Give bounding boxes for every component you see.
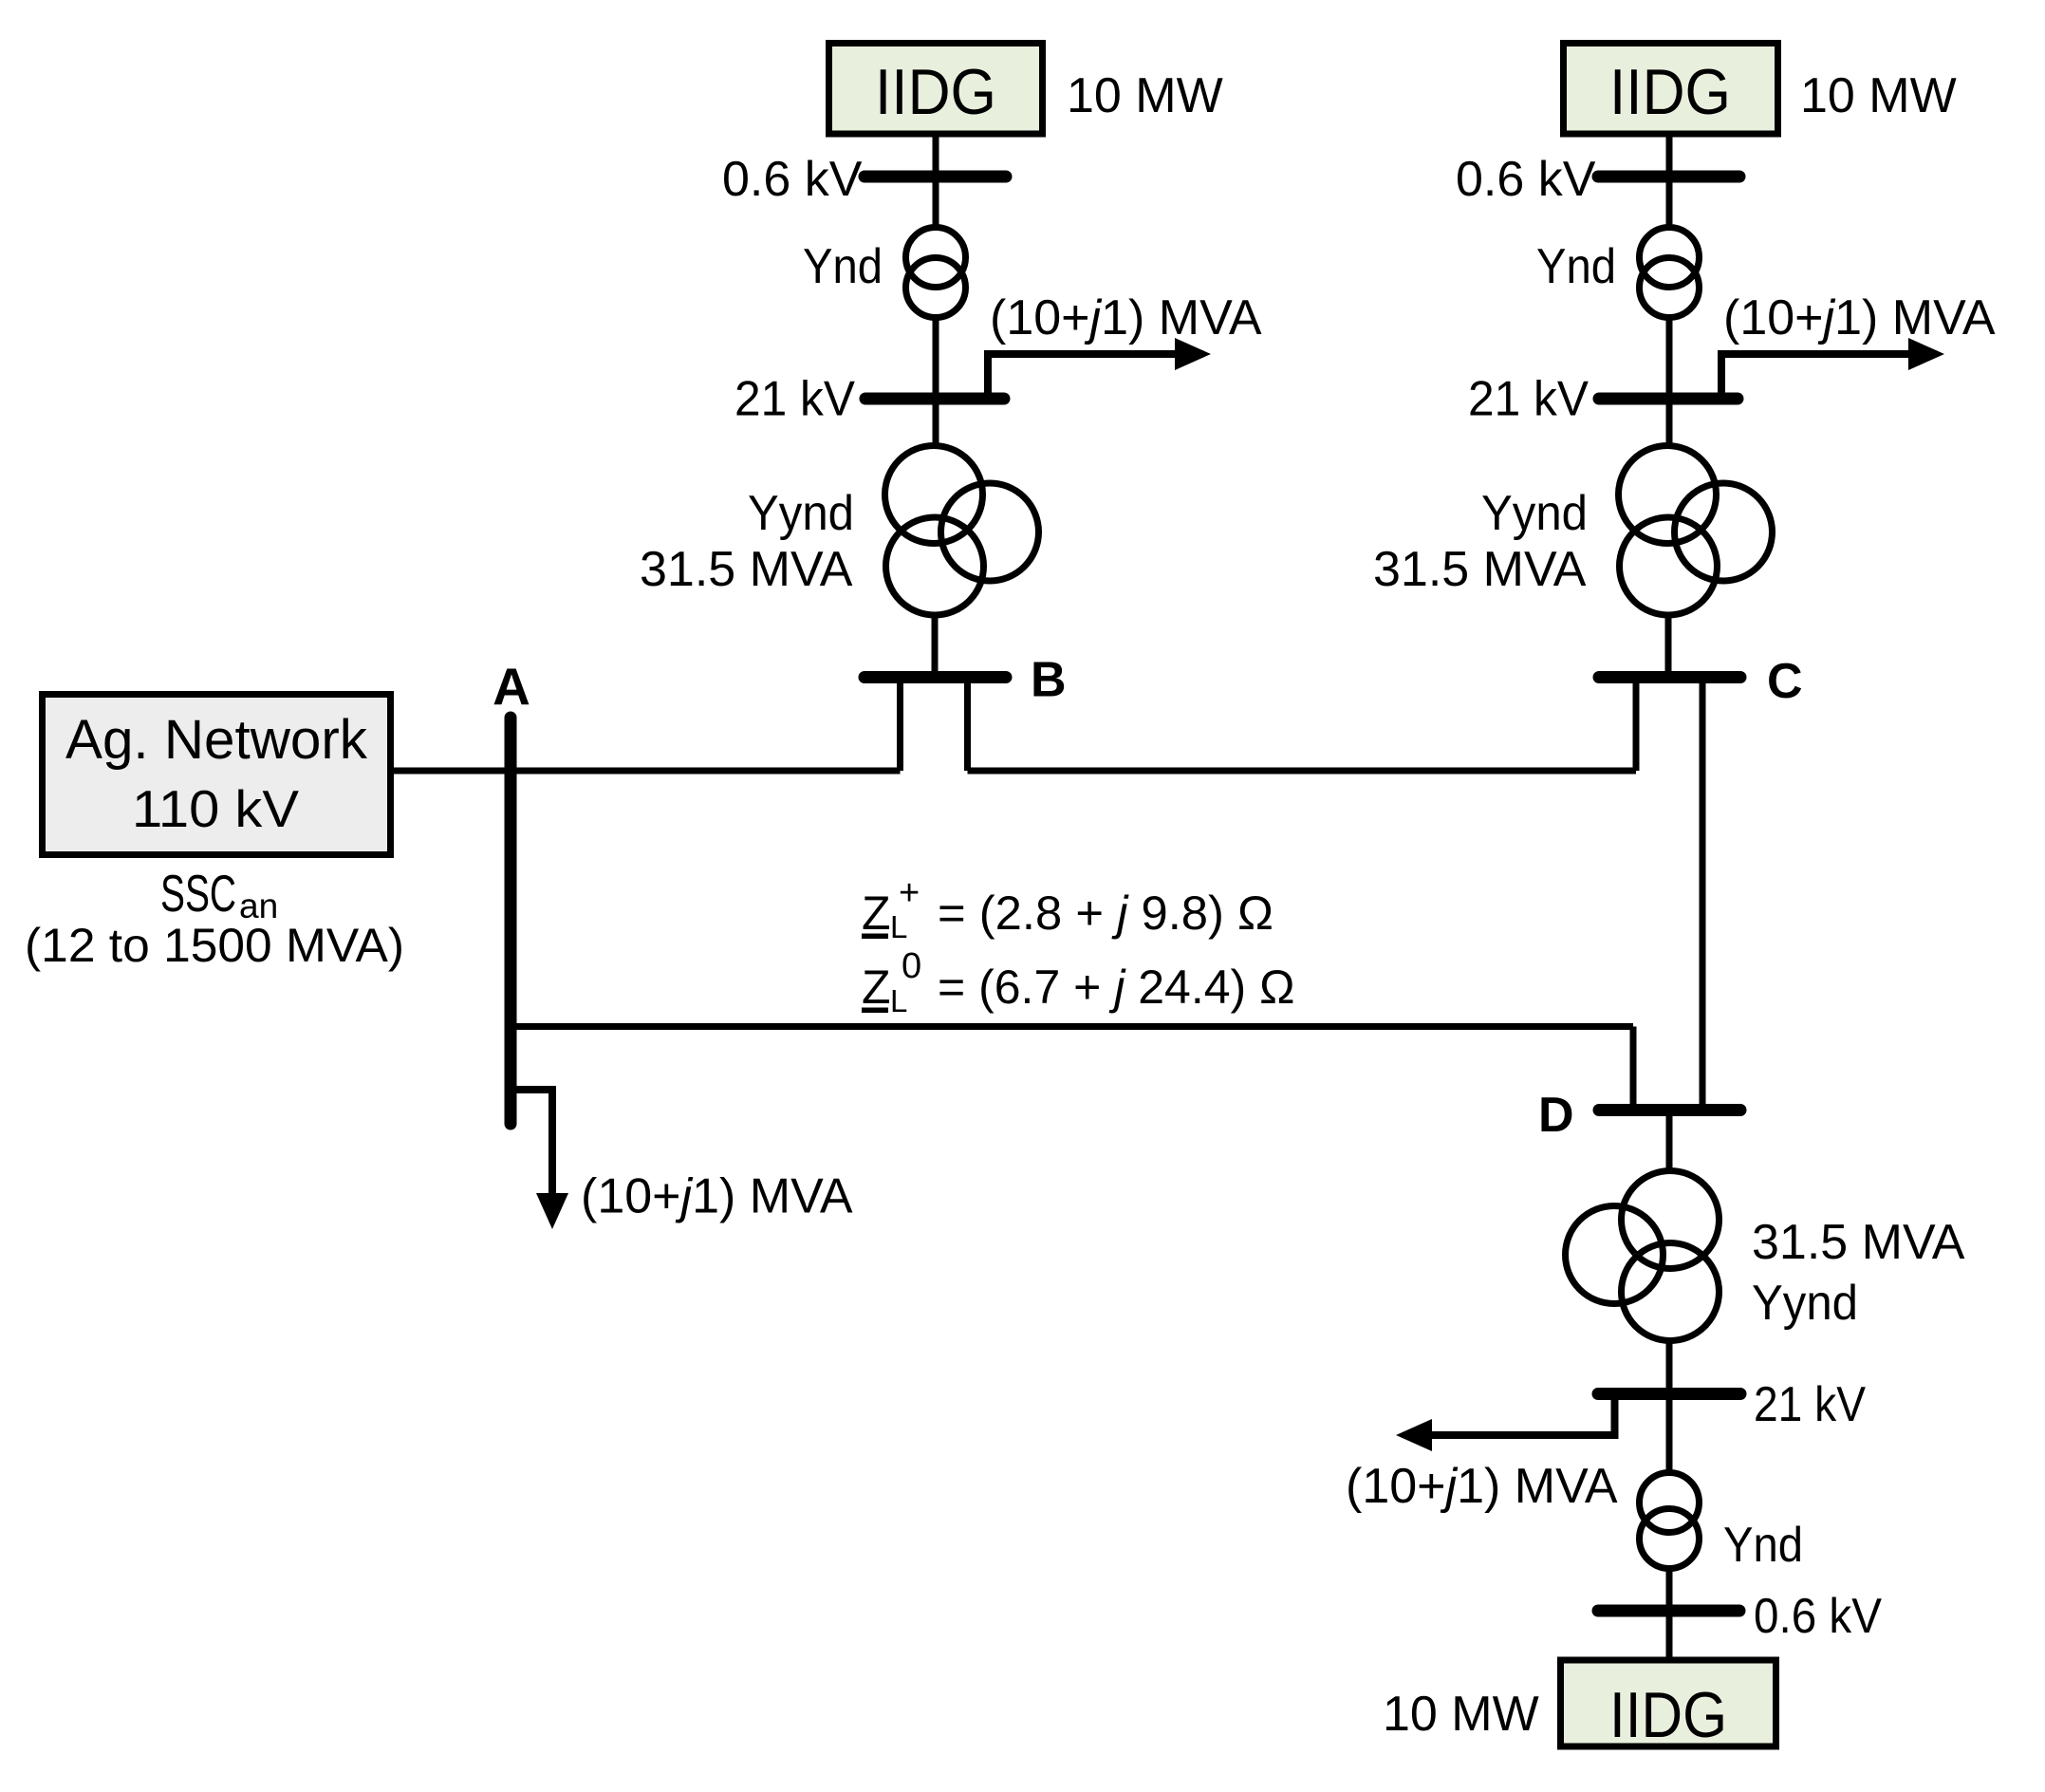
- svg-text:0.6 kV: 0.6 kV: [722, 152, 863, 207]
- wire T6 to 0.6 kV bus (bottom branch): [1666, 1568, 1673, 1611]
- wire T4 to bus C: [1665, 615, 1672, 677]
- wire 0.6 kV bus to IIDG box 3: [1666, 1611, 1673, 1660]
- load arrow at bus A: [511, 1090, 568, 1229]
- svg-text:B: B: [1031, 653, 1067, 708]
- load arrow at 21 kV bus (branch 2): [1721, 338, 1944, 393]
- bus C: [1599, 671, 1740, 683]
- svg-text:(12 to 1500 MVA): (12 to 1500 MVA): [25, 919, 404, 972]
- svg-text:Ynd: Ynd: [803, 239, 883, 294]
- svg-text:Ynd: Ynd: [1723, 1518, 1803, 1573]
- IIDG source box 1: [829, 44, 1043, 135]
- bus 21 kV (branch 1): [865, 393, 1004, 405]
- wire bus D to transformer T5: [1666, 1111, 1673, 1174]
- label line impedance zero sequence: [862, 946, 1294, 1018]
- transformer T2 Yynd 31.5 MVA (three windings, branch 1): [885, 446, 1039, 616]
- svg-text:Yynd: Yynd: [748, 486, 854, 541]
- svg-text:10 MW: 10 MW: [1383, 1687, 1539, 1742]
- svg-text:= (2.8 + j 9.8) Ω: = (2.8 + j 9.8) Ω: [938, 887, 1273, 940]
- svg-text:Ag. Network: Ag. Network: [65, 709, 368, 771]
- svg-text:(10+j1) MVA: (10+j1) MVA: [1346, 1459, 1618, 1514]
- svg-text:31.5 MVA: 31.5 MVA: [1752, 1215, 1965, 1270]
- svg-text:D: D: [1538, 1088, 1574, 1143]
- wire T1 to 21 kV bus (branch 1): [933, 317, 939, 399]
- transformer T5 Yynd 31.5 MVA (three windings, bottom branch): [1566, 1171, 1720, 1341]
- svg-text:Ynd: Ynd: [1536, 239, 1616, 294]
- svg-text:SSC: SSC: [160, 864, 236, 923]
- svg-text:21 kV: 21 kV: [734, 372, 855, 427]
- bus 0.6 kV (bottom branch): [1598, 1605, 1739, 1617]
- wire 21 kV bus to transformer T2 (branch 1): [933, 399, 939, 446]
- svg-text:21 kV: 21 kV: [1754, 1377, 1866, 1432]
- bus 21 kV (bottom branch): [1598, 1388, 1740, 1400]
- wire bus C left stub down to line B-C: [1633, 681, 1640, 771]
- transformer T6 Ynd (two windings, bottom branch): [1640, 1473, 1700, 1569]
- svg-text:0.6 kV: 0.6 kV: [1456, 152, 1596, 207]
- Ag. Network 110 kV box: [43, 695, 391, 855]
- label line impedance positive sequence: [862, 873, 1273, 944]
- svg-text:= (6.7 + j 24.4) Ω: = (6.7 + j 24.4) Ω: [938, 961, 1294, 1014]
- svg-text:10 MW: 10 MW: [1800, 68, 1957, 123]
- svg-text:L: L: [890, 909, 907, 944]
- svg-text:(10+j1) MVA: (10+j1) MVA: [1723, 290, 1996, 345]
- wire line B-C: [968, 768, 1637, 775]
- svg-text:110 kV: 110 kV: [132, 779, 299, 838]
- svg-text:Yynd: Yynd: [1481, 486, 1588, 541]
- wire 21 kV bus to transformer T6 (bottom branch): [1666, 1393, 1673, 1473]
- IIDG source box 3: [1561, 1660, 1776, 1751]
- bus 0.6 kV (branch 1): [864, 171, 1006, 183]
- svg-text:21 kV: 21 kV: [1468, 372, 1589, 427]
- transformer T3 Ynd (two windings, branch 2): [1640, 228, 1700, 318]
- bus D: [1599, 1104, 1740, 1116]
- svg-text:31.5 MVA: 31.5 MVA: [640, 542, 853, 597]
- wire bus B left stub down to line A-B: [897, 681, 903, 771]
- svg-text:C: C: [1767, 654, 1803, 709]
- svg-text:L: L: [890, 983, 907, 1018]
- wire 0.6 kV bus to transformer T3: [1666, 177, 1673, 230]
- load arrow at 21 kV bus (bottom branch): [1396, 1400, 1615, 1451]
- wire bus C right stub down to bus D (line C-D): [1700, 681, 1706, 1107]
- svg-text:A: A: [493, 657, 530, 716]
- svg-text:Z: Z: [862, 887, 891, 940]
- svg-text:0: 0: [902, 946, 921, 986]
- svg-text:(10+j1) MVA: (10+j1) MVA: [990, 290, 1262, 345]
- svg-text:IIDG: IIDG: [1609, 1679, 1727, 1751]
- wire IIDG1 to 0.6 kV bus: [933, 134, 939, 177]
- svg-text:10 MW: 10 MW: [1067, 68, 1223, 123]
- svg-text:Yynd: Yynd: [1752, 1276, 1858, 1331]
- wire IIDG2 to 0.6 kV bus: [1666, 134, 1673, 177]
- transformer T4 Yynd 31.5 MVA (three windings, branch 2): [1619, 446, 1773, 616]
- wire bus B right stub down to line B-C: [964, 681, 971, 771]
- svg-text:IIDG: IIDG: [1609, 56, 1731, 128]
- wire T3 to 21 kV bus (branch 2): [1666, 317, 1673, 399]
- svg-text:IIDG: IIDG: [875, 56, 996, 128]
- svg-text:+: +: [899, 873, 920, 913]
- wire line A-D (horizontal): [511, 1023, 1633, 1030]
- bus 21 kV (branch 2): [1599, 393, 1738, 405]
- svg-text:0.6 kV: 0.6 kV: [1754, 1589, 1882, 1644]
- bus 0.6 kV (branch 2): [1598, 171, 1739, 183]
- wire T5 to 21 kV bus (bottom branch): [1666, 1340, 1673, 1393]
- svg-text:31.5 MVA: 31.5 MVA: [1373, 542, 1587, 597]
- load arrow at 21 kV bus (branch 1): [988, 338, 1211, 393]
- IIDG source box 2: [1564, 44, 1778, 135]
- wire 0.6 kV bus to transformer T1: [933, 177, 939, 230]
- wire line A-D (vertical drop to bus D): [1630, 1027, 1637, 1108]
- svg-text:Z: Z: [862, 961, 891, 1014]
- wire 21 kV bus to transformer T4 (branch 2): [1666, 399, 1673, 446]
- wire Ag. Network box to line at bus A: [394, 768, 901, 775]
- bus B: [864, 671, 1006, 683]
- svg-text:(10+j1) MVA: (10+j1) MVA: [581, 1169, 853, 1224]
- bus A (vertical busbar): [505, 718, 517, 1124]
- transformer T1 Ynd (two windings, branch 1): [906, 228, 966, 318]
- wire T2 to bus B: [932, 615, 939, 677]
